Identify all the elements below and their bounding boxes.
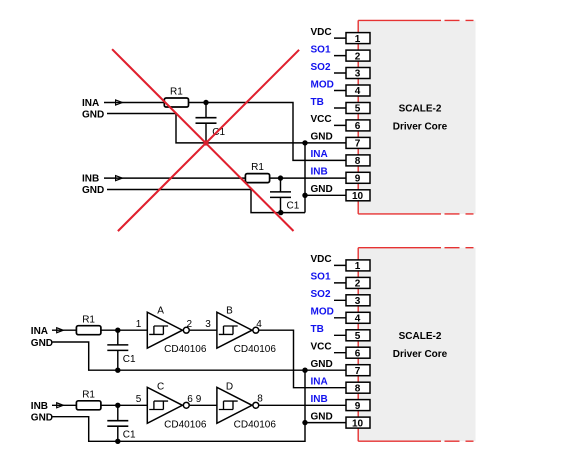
svg-text:INA: INA xyxy=(82,98,99,109)
svg-text:B: B xyxy=(226,305,233,316)
svg-text:R1: R1 xyxy=(170,86,183,97)
svg-text:R1: R1 xyxy=(82,390,95,401)
svg-text:2: 2 xyxy=(187,319,193,330)
svg-text:C1: C1 xyxy=(287,201,300,212)
svg-text:INA: INA xyxy=(31,326,48,337)
svg-text:C1: C1 xyxy=(123,354,136,365)
svg-text:CD40106: CD40106 xyxy=(234,344,277,355)
svg-text:5: 5 xyxy=(136,394,142,405)
svg-text:3: 3 xyxy=(205,319,211,330)
svg-text:8: 8 xyxy=(257,394,263,405)
svg-text:A: A xyxy=(157,305,164,316)
svg-text:INB: INB xyxy=(31,401,48,412)
svg-text:R1: R1 xyxy=(251,162,264,173)
svg-text:9: 9 xyxy=(196,394,202,405)
svg-text:C1: C1 xyxy=(123,430,136,441)
svg-text:CD40106: CD40106 xyxy=(164,344,207,355)
svg-text:GND: GND xyxy=(82,110,104,121)
svg-text:GND: GND xyxy=(31,338,53,349)
svg-text:6: 6 xyxy=(187,394,193,405)
svg-text:4: 4 xyxy=(256,319,262,330)
svg-text:INB: INB xyxy=(82,174,99,185)
svg-text:CD40106: CD40106 xyxy=(164,419,207,430)
svg-text:1: 1 xyxy=(136,319,142,330)
svg-text:C: C xyxy=(157,382,164,393)
svg-text:CD40106: CD40106 xyxy=(234,419,277,430)
svg-text:R1: R1 xyxy=(82,314,95,325)
svg-text:D: D xyxy=(226,382,233,393)
svg-text:GND: GND xyxy=(82,185,104,196)
svg-text:GND: GND xyxy=(31,412,53,423)
